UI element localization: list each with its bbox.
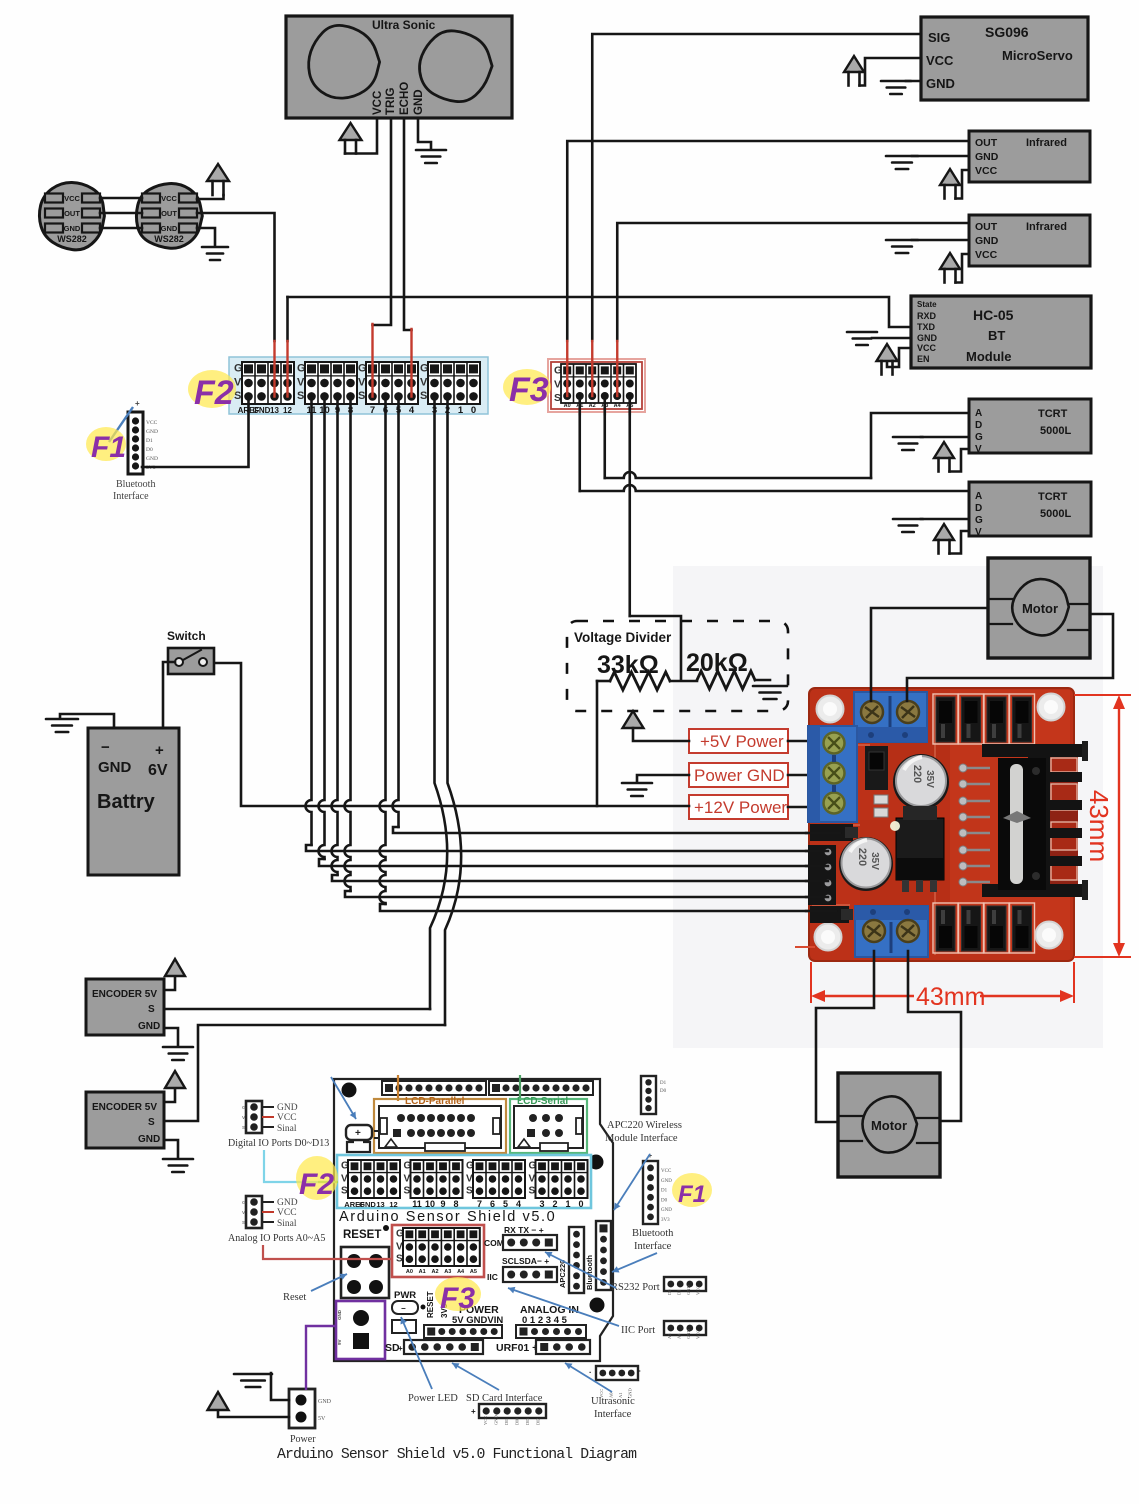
F1 right label highlight [672, 1173, 712, 1207]
svg-text:A5: A5 [667, 1333, 672, 1339]
ground symbol WS2812 [202, 247, 228, 260]
svg-text:SG096: SG096 [985, 24, 1029, 40]
svg-text:PWR: PWR [394, 1290, 416, 1301]
F3 label highlight [503, 369, 551, 405]
svg-text:TRIG: TRIG [385, 87, 397, 115]
svg-text:GND: GND [253, 406, 271, 415]
Power GND label [689, 763, 788, 787]
power arrow IR1 [940, 169, 960, 185]
svg-text:TCRT: TCRT [1038, 408, 1068, 420]
svg-text:Interface: Interface [113, 491, 149, 502]
svg-text:D: D [975, 420, 982, 431]
svg-text:V: V [242, 1210, 245, 1215]
svg-text:VCC: VCC [161, 194, 177, 203]
+12V power label [689, 795, 788, 819]
wire IR1 GND to ground [912, 155, 969, 158]
svg-text:GND: GND [359, 1200, 376, 1209]
svg-text:Digital IO Ports D0~D13: Digital IO Ports D0~D13 [228, 1138, 329, 1149]
wire F2 pin11 to L298N IN [306, 397, 312, 845]
svg-text:+: + [155, 742, 164, 759]
svg-text:Power GND: Power GND [694, 766, 785, 785]
svg-text:GND: GND [337, 1309, 342, 1320]
wire F2 pin3 to encoder1 (arc over bundle) [430, 397, 447, 1009]
svg-text:+: + [398, 1344, 403, 1353]
svg-text:GND: GND [138, 1021, 160, 1032]
svg-text:5000L: 5000L [1040, 508, 1071, 520]
voltage regulator (TO-220) [896, 806, 944, 892]
wire motor2 left to screw [816, 951, 874, 1122]
svg-text:RESET: RESET [343, 1229, 381, 1241]
wire motor1 right to screw [907, 614, 1113, 701]
svg-text:V: V [466, 1173, 473, 1184]
wire F2 pin9 to L298N IN [332, 397, 338, 875]
svg-text:DI0: DI0 [515, 1417, 520, 1425]
svg-text:VCC: VCC [917, 343, 937, 353]
digital pin strip top 1 [382, 1081, 486, 1095]
svg-text:5000L: 5000L [1040, 425, 1071, 437]
resistor 20k [697, 671, 755, 689]
terminal block motor B (bottom) [855, 906, 928, 957]
svg-text:VCC: VCC [146, 420, 158, 426]
svg-text:VCC: VCC [483, 1416, 488, 1425]
svg-text:DI3: DI3 [525, 1417, 530, 1425]
svg-text:V: V [975, 527, 982, 538]
svg-text:10: 10 [425, 1199, 435, 1209]
wire IR1 OUT to F3 A0 [567, 141, 969, 341]
svg-text:SD Card Interface: SD Card Interface [466, 1393, 543, 1404]
F1 connector (right) [632, 1153, 674, 1252]
svg-text:V: V [341, 1173, 348, 1184]
svg-text:V: V [396, 1241, 403, 1252]
wire encoder2 S to F2 pin2 [164, 1025, 445, 1121]
svg-text:GND: GND [917, 333, 938, 343]
svg-text:EN: EN [917, 354, 930, 364]
svg-text:S: S [404, 1185, 411, 1196]
HC-05 bluetooth module [911, 296, 1091, 368]
blue arrow SD card [452, 1363, 499, 1390]
LCD-Serial block [510, 1096, 587, 1153]
mounting hole top-right [1038, 694, 1065, 721]
svg-text:Interface: Interface [594, 1409, 632, 1420]
battery [88, 728, 179, 875]
wire TCRT2 G to ground [921, 518, 969, 521]
wire F3 A5 to divider junction [628, 396, 631, 616]
svg-text:GND: GND [661, 1208, 672, 1213]
ground symbol TCRT2 [893, 519, 923, 532]
ground symbol encoder1 [163, 1047, 193, 1060]
blue pointer at F1 [109, 407, 133, 442]
svg-text:A2: A2 [589, 403, 596, 409]
svg-text:Interface: Interface [634, 1241, 672, 1252]
wire F1 to F2 GND pin [142, 397, 249, 467]
svg-text:RX TX − +: RX TX − + [504, 1225, 544, 1235]
ultrasonic interface connector [589, 1366, 641, 1420]
heatsink with L298 IC [982, 741, 1088, 900]
svg-text:GND: GND [686, 1329, 691, 1339]
svg-text:D1: D1 [677, 1290, 682, 1296]
svg-text:VCC: VCC [926, 53, 954, 68]
svg-text:3: 3 [539, 1199, 544, 1209]
WS2812 LED 1 [39, 182, 104, 249]
bluetooth on-board header [585, 1221, 611, 1290]
shield F3 pin block [392, 1225, 484, 1277]
photo backdrop [673, 566, 1103, 1048]
red wire into F2 pin13 [273, 341, 275, 397]
blue arrow reset [311, 1274, 347, 1291]
svg-text:GND: GND [98, 759, 132, 776]
wire power 5V to +V arrow [218, 1411, 289, 1417]
svg-text:4: 4 [409, 405, 415, 416]
svg-text:VCC: VCC [64, 194, 80, 203]
wire servo GND to ground [906, 80, 921, 83]
battery holder [346, 1125, 372, 1140]
svg-text:43mm: 43mm [916, 983, 985, 1011]
svg-text:RXD: RXD [917, 311, 937, 321]
svg-text:+: + [355, 1128, 361, 1139]
wire encoder1 S to F2 pin3 [164, 1008, 430, 1011]
power arrow IR2 [940, 253, 960, 269]
svg-text:0: 0 [471, 405, 476, 416]
svg-text:DI2: DI2 [536, 1418, 541, 1425]
svg-text:F2: F2 [299, 1168, 334, 1201]
jumper J1 [865, 746, 888, 790]
svg-text:GND: GND [686, 1285, 691, 1295]
red wire into F3 A2 [591, 341, 593, 396]
red wire into F2 pin4 [410, 329, 412, 397]
red wire into F3 A0 [566, 341, 568, 396]
analog header [516, 1325, 586, 1338]
svg-text:5V: 5V [318, 1416, 326, 1422]
svg-text:OUT: OUT [975, 221, 998, 233]
svg-text:VCC: VCC [661, 1169, 672, 1174]
wire IR1 VCC to +V arrow [956, 170, 970, 199]
svg-text:S: S [420, 390, 427, 402]
wire servo SIG to F3 A2 [592, 34, 921, 341]
43mm vertical dimension [1074, 695, 1131, 957]
voltage divider dashed box [567, 621, 788, 711]
svg-text:G: G [242, 1105, 246, 1110]
infrared sensor 1 [969, 131, 1090, 182]
svg-text:VCC: VCC [975, 165, 998, 177]
wire HC-05 GND to ground [872, 337, 911, 340]
wire IR2 OUT to F3 A4 [617, 223, 969, 341]
svg-text:V: V [975, 444, 982, 455]
svg-text:4: 4 [516, 1199, 521, 1209]
svg-text:S: S [148, 1117, 155, 1128]
blue arrow ultrasonic [565, 1363, 612, 1392]
svg-text:V: V [242, 1115, 245, 1120]
cyan wire to shield F2 [264, 1150, 338, 1182]
wire encoder1 VCC to +V arrow [164, 978, 175, 990]
svg-text:Infrared: Infrared [1026, 221, 1067, 233]
digital IO 3-pin connector [228, 1101, 329, 1149]
shield hole lower-right [590, 1298, 605, 1313]
svg-text:S: S [242, 1125, 245, 1130]
svg-text:F3: F3 [440, 1282, 475, 1315]
wire F3 A3 down [603, 396, 606, 478]
svg-text:HC-05: HC-05 [973, 307, 1014, 323]
svg-text:TCRT: TCRT [1038, 491, 1068, 503]
svg-text:D0: D0 [660, 1089, 667, 1094]
svg-text:V: V [297, 377, 305, 389]
svg-text:9: 9 [440, 1199, 445, 1209]
wire WS2812-2 VCC to +V arrow [197, 195, 224, 199]
svg-text:A0: A0 [406, 1269, 413, 1275]
svg-text:A4: A4 [677, 1333, 682, 1339]
svg-text:D1: D1 [661, 1189, 668, 1194]
svg-text:220: 220 [856, 848, 868, 866]
svg-text:ECHO: ECHO [399, 82, 411, 115]
red wire to shield F3 [263, 1245, 392, 1259]
svg-text:VCC: VCC [277, 1113, 297, 1123]
svg-text:A: A [975, 408, 982, 419]
terminal block power (left) [808, 726, 857, 822]
wire ultrasonic VCC to +V arrow [345, 118, 377, 154]
arduino shield board outline [334, 1079, 613, 1361]
svg-text:S: S [396, 1253, 403, 1264]
svg-text:Sinal: Sinal [277, 1219, 297, 1229]
wire TCRT1 G to ground [921, 436, 969, 439]
svg-text:A: A [975, 491, 982, 502]
svg-text:+: + [471, 1407, 476, 1416]
svg-text:GND: GND [975, 151, 999, 163]
APC220 wireless interface connector [605, 1076, 682, 1144]
svg-text:COM: COM [484, 1238, 504, 1248]
analog IO 3-pin connector [228, 1196, 325, 1244]
svg-text:2: 2 [552, 1199, 557, 1209]
svg-text:F1: F1 [678, 1181, 706, 1208]
svg-text:OUT: OUT [64, 209, 80, 218]
svg-text:6V: 6V [148, 762, 168, 779]
power arrow bottom [208, 1392, 229, 1410]
power arrow TCRT1 [934, 442, 954, 458]
svg-text:F2: F2 [194, 374, 234, 412]
svg-text:V: V [358, 377, 366, 389]
power arrow ultrasonic [340, 123, 362, 140]
ground symbol battery [46, 719, 78, 732]
RS232 port [611, 1277, 706, 1295]
TCRT 5000L sensor 2 [969, 482, 1091, 538]
shield F2 pin block [337, 1155, 591, 1209]
wire HC-05 TXD to F2 pin12 [288, 297, 912, 327]
wire encoder1 GND to ground [164, 1028, 178, 1046]
svg-text:V: V [404, 1173, 411, 1184]
svg-text:Switch: Switch [167, 629, 206, 643]
svg-text:ENCODER 5V: ENCODER 5V [92, 989, 157, 1000]
blue arrow bluetooth interface [612, 1253, 657, 1272]
svg-text:Module Interface: Module Interface [605, 1133, 678, 1144]
ground symbol divider [753, 686, 787, 699]
svg-text:220: 220 [911, 765, 923, 783]
svg-text:9V: 9V [337, 1339, 342, 1345]
svg-text:GND: GND [926, 76, 955, 91]
svg-text:Arduino Sensor Shield v5.0 Fun: Arduino Sensor Shield v5.0 Functional Di… [277, 1447, 637, 1463]
wire TRIG to F2 pin7 [373, 118, 392, 325]
svg-text:V: V [420, 377, 428, 389]
smd resistors [874, 795, 888, 804]
SD card interface connector [466, 1393, 546, 1425]
svg-text:TXD: TXD [917, 322, 936, 332]
svg-text:RS232 Port: RS232 Port [611, 1282, 660, 1293]
F2 header block (zoomed shield digital pins) [229, 357, 488, 416]
wires WS2812-1 to WS2812-2 [100, 197, 142, 200]
wire F2 pin5 to L298N ENB [393, 397, 399, 827]
svg-text:13: 13 [376, 1200, 384, 1209]
svg-text:D: D [975, 503, 982, 514]
svg-text:S: S [148, 1004, 155, 1015]
svg-text:Reset: Reset [283, 1292, 306, 1303]
wire servo VCC to +V arrow [860, 58, 922, 86]
svg-text:+5V Power: +5V Power [700, 732, 784, 751]
ground symbol IR2 [886, 240, 918, 253]
wire F2 pin2 to encoder2 (arc over bundle) [445, 397, 461, 1025]
svg-text:S: S [242, 1220, 245, 1225]
power connector bottom [289, 1389, 332, 1445]
svg-text:Bluetooth: Bluetooth [632, 1228, 674, 1239]
ground symbol IR1 [886, 156, 918, 169]
svg-text:A5: A5 [470, 1269, 477, 1275]
svg-text:Ultra Sonic: Ultra Sonic [372, 18, 436, 32]
svg-text:OUT: OUT [161, 209, 177, 218]
svg-text:S: S [297, 390, 304, 402]
wire TCRT2 V to +V arrow [950, 531, 970, 554]
svg-text:−: − [401, 1304, 406, 1313]
svg-text:GND: GND [494, 1415, 499, 1425]
svg-text:S: S [529, 1185, 536, 1196]
svg-text:SIG: SIG [928, 30, 950, 45]
infrared sensor 2 [969, 215, 1090, 266]
wire WS2812-2 OUT to F2 pin13 [197, 213, 275, 341]
blue arrow IIC [508, 1288, 619, 1326]
svg-text:State: State [917, 300, 937, 309]
svg-text:IIC Port: IIC Port [621, 1325, 655, 1336]
wire HC-05 VCC to +V arrow [887, 348, 911, 367]
svg-text:GND: GND [413, 89, 425, 115]
svg-text:MicroServo: MicroServo [1002, 48, 1073, 63]
+5V power label [689, 729, 788, 753]
jumper group bottom right [933, 903, 1035, 953]
shield hole right [589, 1155, 604, 1170]
red wire into F3 A4 [616, 341, 618, 396]
wire F2 pin6 to L298N ENA [380, 397, 386, 904]
svg-text:Ultrasonic: Ultrasonic [591, 1396, 635, 1407]
ground symbol servo [881, 81, 911, 94]
servo SG90 [921, 17, 1088, 100]
svg-text:Battry: Battry [97, 791, 156, 813]
svg-text:13: 13 [270, 406, 279, 415]
wire motor1 left to screw [871, 608, 988, 701]
LCD-Parallel block [374, 1096, 506, 1153]
svg-text:VCC: VCC [696, 1330, 701, 1339]
svg-text:Arduino Sensor Shield v5.0: Arduino Sensor Shield v5.0 [339, 1209, 556, 1225]
wire battery + to switch [163, 662, 175, 728]
wire battery GND to ground [60, 714, 114, 728]
power arrow servo [844, 56, 864, 72]
encoder 1 [86, 979, 164, 1035]
wire F2 pin10 to L298N IN [319, 397, 325, 859]
F2 label highlight [188, 370, 236, 408]
svg-text:5: 5 [503, 1199, 508, 1209]
wire WS2812-2 GND to ground [197, 228, 215, 246]
svg-text:ENCODER 5V: ENCODER 5V [92, 1102, 157, 1113]
encoder 2 [86, 1092, 164, 1148]
shield F2 label highlight [296, 1156, 338, 1200]
power jack (purple) [336, 1301, 385, 1359]
svg-text:Motor: Motor [1022, 601, 1058, 616]
wire F2 pin8 to L298N IN [345, 397, 351, 891]
digital pin strip top 2 [489, 1081, 593, 1095]
blue arrow top-left [331, 1077, 356, 1119]
wire divider to +12V rail [596, 681, 599, 806]
svg-text:GND: GND [146, 456, 158, 462]
svg-text:6: 6 [490, 1199, 495, 1209]
svg-text:GND: GND [161, 224, 178, 233]
F3 header block (zoomed shield analog pins) [548, 359, 645, 412]
wire encoder2 GND to ground [164, 1140, 178, 1158]
svg-text:Analog IO Ports A0~A5: Analog IO Ports A0~A5 [228, 1233, 325, 1244]
svg-text:G: G [975, 432, 983, 443]
svg-text:3V3: 3V3 [661, 1218, 670, 1223]
svg-text:35V: 35V [869, 852, 880, 870]
svg-text:A4: A4 [614, 403, 622, 409]
wire TCRT1 V to +V arrow [950, 449, 970, 472]
wire TCRT2 A to F3 A1 [580, 485, 969, 491]
control header (left edge) [810, 824, 853, 841]
svg-text:GND: GND [661, 1179, 672, 1184]
capacitor C2 (220uF 35V) [839, 837, 893, 891]
svg-text:Infrared: Infrared [1026, 137, 1067, 149]
motor 1 (top) [988, 558, 1090, 658]
power header [424, 1325, 502, 1338]
motor 2 (bottom) [838, 1073, 940, 1177]
power arrow HC-05 [877, 344, 898, 361]
svg-text:V: V [554, 379, 561, 391]
shield hole top-left [342, 1083, 357, 1098]
purple wire power jack [306, 1326, 336, 1390]
svg-text:S: S [341, 1185, 348, 1196]
F1 bluetooth interface connector [113, 412, 158, 502]
black wire stubs from F3 A1 A3 A5 over label row [578, 396, 581, 414]
reset button [341, 1247, 389, 1298]
svg-text:Module: Module [966, 349, 1012, 364]
power arrow TCRT2 [934, 524, 954, 540]
svg-text:A1: A1 [419, 1269, 426, 1275]
svg-text:D1: D1 [660, 1081, 667, 1086]
terminal block motor A (top) [854, 692, 927, 742]
shield F3 label highlight [435, 1277, 481, 1311]
svg-text:0: 0 [578, 1199, 583, 1209]
mounting hole bottom-left [815, 924, 842, 951]
svg-text:GND: GND [318, 1399, 332, 1405]
43mm horizontal dimension [811, 962, 1074, 1011]
ground symbol encoder2 [163, 1159, 193, 1172]
svg-text:12: 12 [389, 1200, 397, 1209]
svg-text:G: G [242, 1200, 246, 1205]
svg-text:F1: F1 [91, 431, 126, 464]
ground symbol power connector [234, 1374, 272, 1387]
svg-text:-: - [638, 1366, 641, 1375]
svg-text:WS282: WS282 [57, 234, 87, 244]
svg-text:Bluetooth: Bluetooth [116, 479, 155, 490]
APC220 on-board header [558, 1227, 584, 1293]
svg-text:IIC: IIC [487, 1272, 498, 1282]
svg-text:−: − [101, 739, 110, 756]
svg-text:12: 12 [283, 406, 292, 415]
svg-text:GND: GND [975, 235, 999, 247]
svg-text:D0: D0 [146, 447, 153, 453]
svg-text:S: S [358, 390, 365, 402]
wire IR2 GND to ground [912, 239, 969, 242]
